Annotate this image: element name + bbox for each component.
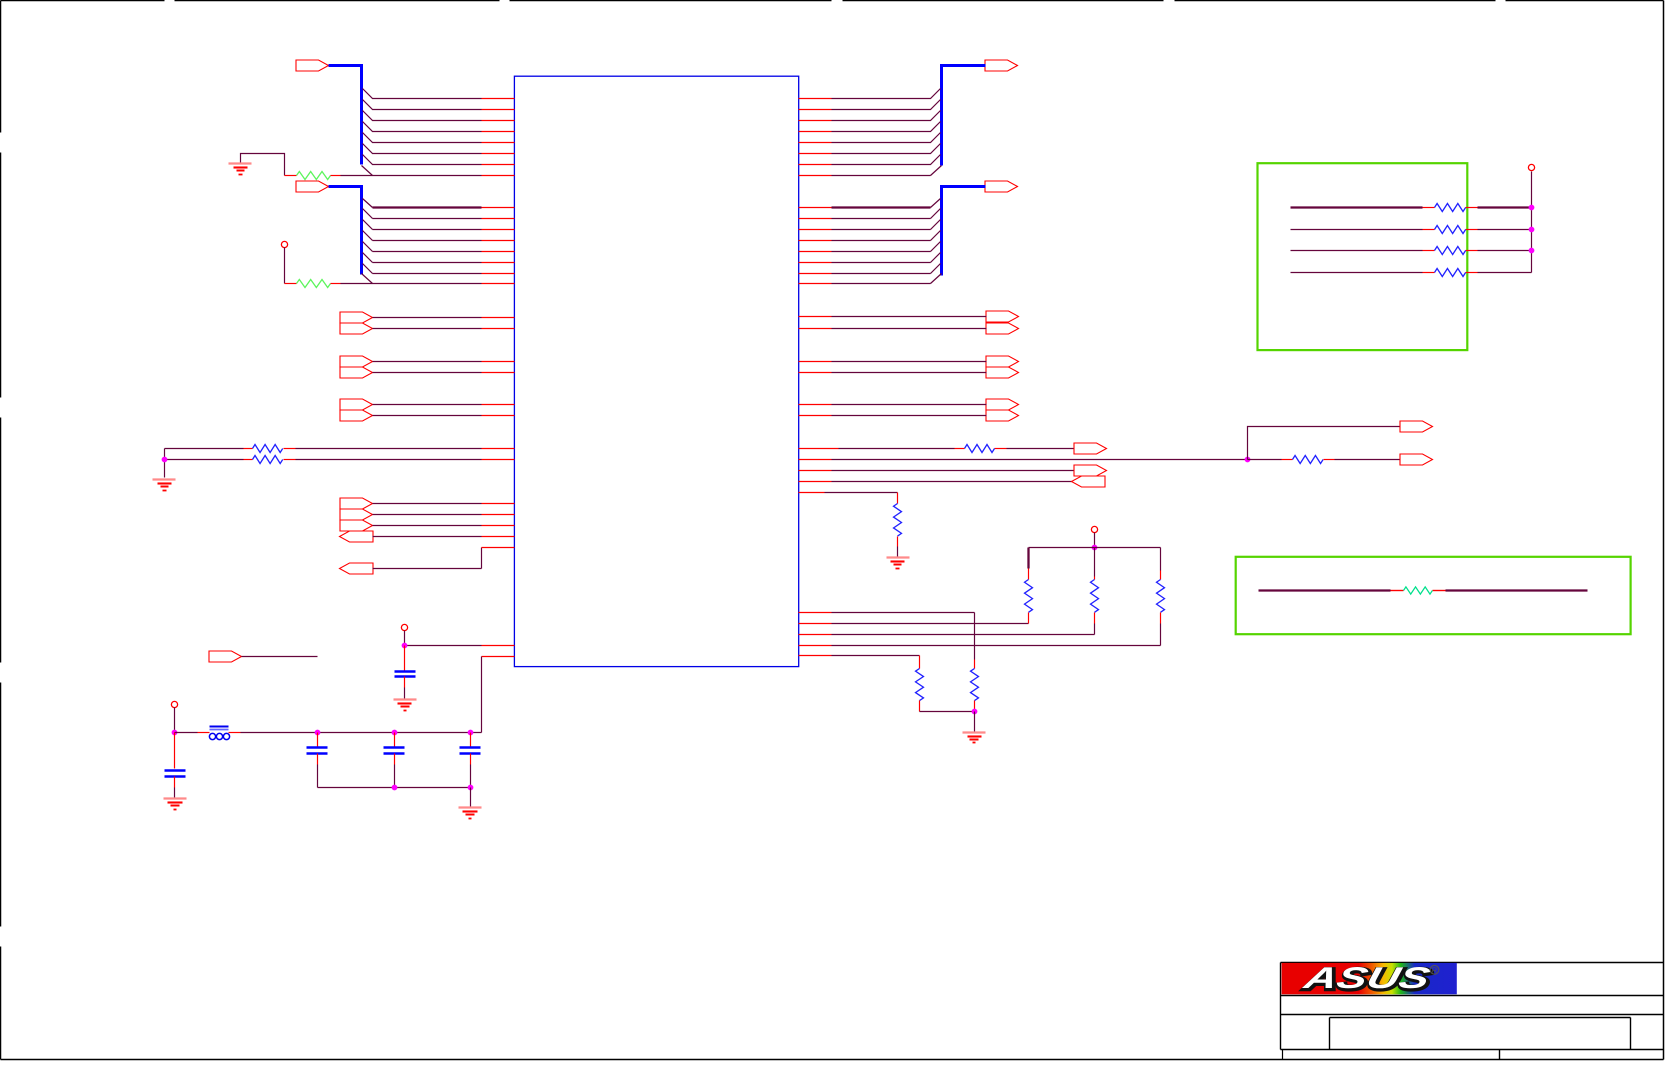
resistor R12 bbox=[1157, 580, 1165, 613]
ground GND7 bbox=[963, 733, 986, 743]
junction node G2 bbox=[1529, 227, 1535, 233]
wire c1 gnd lead bbox=[404, 677, 406, 699]
wire gnd stem bbox=[470, 788, 472, 807]
junction node G3 bbox=[1529, 248, 1535, 254]
wire box1 w2 bbox=[1291, 229, 1532, 231]
connector flag F9 left-pointing bbox=[1072, 476, 1106, 487]
wire c3 top lead bbox=[317, 733, 319, 747]
junction node G1 bbox=[1529, 205, 1535, 211]
wire ic pin to rail bbox=[482, 657, 515, 733]
wire c2 lead bbox=[174, 733, 176, 769]
junction node D1 bbox=[1245, 457, 1251, 463]
connector flag J1 bbox=[296, 60, 329, 71]
connector flags cluster bbox=[340, 498, 373, 531]
ground GND3 bbox=[394, 700, 417, 711]
wire w16 with pin net bbox=[281, 241, 481, 283]
wire r10 top bbox=[1027, 548, 1029, 580]
junction node E1 bbox=[972, 709, 978, 715]
bus wire B4 bbox=[942, 187, 986, 276]
wire q4 bbox=[799, 645, 1161, 647]
wire q3 bbox=[799, 634, 1095, 636]
wire q5 bbox=[799, 656, 920, 669]
wire box1 rail bbox=[1531, 172, 1533, 273]
title block grid bbox=[1281, 963, 1664, 1060]
pin P2 circle bbox=[171, 701, 177, 707]
wire rail left bbox=[175, 732, 210, 734]
ground GND2 bbox=[153, 480, 176, 491]
wire c1 lead bbox=[404, 646, 406, 672]
IC U1 main chip body bbox=[514, 76, 798, 666]
wire c3 bottom lead bbox=[317, 754, 319, 788]
junction node B1 bbox=[392, 785, 398, 791]
connector flag J3 bbox=[985, 60, 1018, 71]
wire r11 top bbox=[1094, 548, 1096, 580]
wire top border with zone gaps bbox=[1, 0, 1664, 2]
wire rail right of bead bbox=[229, 732, 482, 734]
wire p3 stem bbox=[1094, 533, 1096, 548]
wire r11 bottom bbox=[1094, 613, 1096, 635]
wire r8 bottom bbox=[974, 701, 976, 712]
wire r12 bottom bbox=[1160, 613, 1162, 646]
resistor R6 bbox=[1293, 456, 1324, 464]
resistor R11 bbox=[1091, 580, 1099, 613]
ground GND5 bbox=[459, 808, 482, 819]
wire p2 stem bbox=[174, 708, 176, 733]
wire group2 right fan bbox=[799, 199, 942, 284]
wire right border bbox=[1663, 1, 1665, 1060]
ground GND4 bbox=[164, 799, 187, 810]
wire box1 w1 bbox=[1291, 206, 1532, 208]
wire bottom rail bbox=[318, 787, 471, 789]
junction node C3 bbox=[315, 730, 321, 736]
wire cluster bbox=[373, 504, 515, 526]
wire net A stem bbox=[164, 449, 166, 478]
capacitor C3 bbox=[307, 748, 328, 754]
wire c5 bottom lead bbox=[470, 754, 472, 788]
wire k1 bbox=[373, 536, 515, 538]
callout box 2 bbox=[1236, 557, 1631, 634]
wire left border with zone gaps bbox=[0, 1, 2, 1060]
ASUS logo bbox=[1282, 961, 1457, 996]
resistor R1 bbox=[297, 172, 331, 180]
wire out2 to resistor bbox=[1248, 459, 1401, 461]
wire group1 right fan bbox=[799, 89, 942, 176]
junction node C4 bbox=[392, 730, 398, 736]
pin P4 circle bbox=[1528, 164, 1534, 170]
wire pairs right bbox=[799, 317, 987, 416]
resistor R13 bbox=[1435, 204, 1466, 212]
capacitor C4 bbox=[384, 748, 405, 754]
ground GND1 bbox=[229, 164, 252, 175]
connector flag pairs left bbox=[340, 312, 373, 421]
junction node P2 bbox=[172, 730, 178, 736]
bus wire B3 bbox=[942, 66, 986, 166]
wire k3 stub bbox=[242, 656, 318, 658]
wire out5 bbox=[799, 493, 898, 504]
wire e1 gnd stem bbox=[974, 712, 976, 732]
wire k2 bent bbox=[373, 548, 515, 569]
connector flag pairs right bbox=[986, 311, 1019, 421]
wire out1 bbox=[799, 448, 1074, 450]
wire group2 left fan bbox=[363, 199, 515, 284]
wire r7 gnd bbox=[897, 537, 899, 557]
wire net A top bbox=[165, 448, 515, 450]
inductor FB1 ferrite bead bbox=[209, 727, 229, 740]
wire pairs left bbox=[373, 318, 515, 416]
ground GND6 bbox=[887, 558, 910, 569]
resistor R4 bbox=[253, 456, 283, 464]
capacitor C2 bbox=[165, 771, 186, 777]
wire r2 lead bbox=[331, 283, 341, 285]
connector flag F5 bbox=[1074, 443, 1107, 454]
wire w8 with ground net bbox=[241, 154, 482, 176]
resistor R10 bbox=[1025, 580, 1033, 613]
resistor R2 bbox=[297, 280, 331, 288]
connector flag K1 left-pointing bbox=[340, 531, 374, 542]
capacitor C5 bbox=[460, 748, 481, 754]
wire r9 bottom bbox=[920, 701, 975, 712]
resistor R5 bbox=[965, 445, 995, 453]
wire c2 gnd bbox=[174, 777, 176, 798]
bus wire B1 bbox=[329, 66, 362, 165]
connector flag F7 bbox=[1400, 454, 1433, 465]
wire p1 bbox=[405, 631, 515, 646]
wire bottom border bbox=[1, 1059, 1664, 1061]
callout box 1 bbox=[1258, 163, 1468, 350]
junction node B2 bbox=[468, 785, 474, 791]
wire net A bottom bbox=[165, 459, 515, 461]
wire out2 bbox=[799, 459, 1248, 461]
wire out3 bbox=[799, 470, 1074, 472]
svg-text:ASUS: ASUS bbox=[1300, 961, 1434, 994]
wire pullup rail bbox=[1029, 547, 1161, 549]
resistor R9 bbox=[916, 669, 924, 701]
connector flag K2 left-pointing bbox=[340, 563, 374, 574]
connector flag J2 bbox=[296, 181, 329, 192]
junction node P1 bbox=[402, 643, 408, 649]
bus wire B2 bbox=[329, 187, 362, 275]
connector flag F8 bbox=[1074, 465, 1107, 476]
pin P3 circle bbox=[1091, 526, 1097, 532]
connector flag F6 bbox=[1400, 421, 1433, 432]
capacitor C1 bbox=[395, 672, 416, 677]
wire c4 top lead bbox=[394, 733, 396, 747]
wire r12 top bbox=[1160, 548, 1162, 580]
wire box1 w4 bbox=[1291, 272, 1532, 274]
resistor R8 bbox=[971, 669, 979, 701]
junction node P3 bbox=[1092, 545, 1098, 551]
wire q2 bbox=[799, 623, 1029, 625]
wire r1 lead bbox=[331, 175, 341, 177]
wire out4 bbox=[799, 481, 1073, 483]
wire q1 bbox=[799, 613, 975, 669]
wire r10 bottom bbox=[1028, 613, 1030, 624]
resistor R7 bbox=[894, 504, 902, 537]
resistor R15 bbox=[1435, 247, 1466, 255]
wire c5 top lead bbox=[470, 733, 472, 747]
pin P1 circle bbox=[401, 624, 407, 630]
resistor R16 bbox=[1435, 269, 1466, 277]
resistor R14 bbox=[1435, 226, 1466, 234]
wire c4 bottom lead bbox=[394, 754, 396, 788]
svg-text:R: R bbox=[1432, 966, 1438, 975]
resistor R3 bbox=[253, 445, 283, 453]
connector flag K3 bbox=[209, 651, 242, 662]
junction node C5 bbox=[468, 730, 474, 736]
connector flag J4 bbox=[985, 181, 1018, 192]
wire box1 w3 bbox=[1291, 250, 1532, 252]
wire box2 bbox=[1259, 589, 1588, 591]
resistor R17 bbox=[1404, 587, 1433, 594]
wire group1 left fan bbox=[363, 89, 515, 176]
wire out2 branch up bbox=[1248, 427, 1401, 460]
junction node A bbox=[162, 457, 168, 463]
